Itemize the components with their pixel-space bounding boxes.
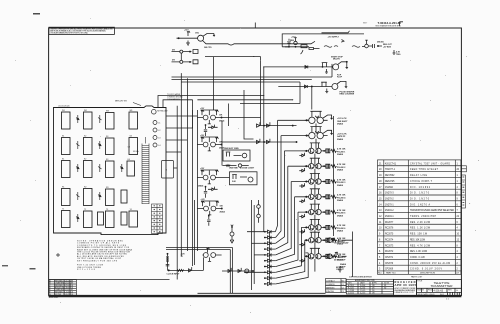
svg-text:2N404: 2N404 xyxy=(219,120,224,123)
counter stage FF3 xyxy=(197,170,229,184)
svg-text:R2: R2 xyxy=(84,187,86,189)
revision table (bottom left) xyxy=(49,280,77,296)
svg-text:ISS 7: ISS 7 xyxy=(363,23,367,25)
ring counter stage R4 pulse 2 xyxy=(299,158,336,181)
supply output line xyxy=(322,31,350,47)
svg-text:W3: W3 xyxy=(106,111,109,113)
title block text xyxy=(417,281,458,296)
multivibrator U1 labels xyxy=(331,56,344,79)
regulator labels xyxy=(377,42,401,56)
svg-text:FEED THRU EYELET: FEED THRU EYELET xyxy=(410,169,439,171)
horizontal rule above revision table xyxy=(49,279,170,281)
svg-text:COMMON: COMMON xyxy=(326,284,335,286)
diode gate row A xyxy=(257,122,297,127)
border frame xyxy=(49,28,462,296)
svg-text:VOLTAGES MEASURED WITH VTVM TO: VOLTAGES MEASURED WITH VTVM TO GROUND. xyxy=(50,32,88,35)
svg-text:NOTES: NOTES xyxy=(55,294,62,296)
svg-text:C2: C2 xyxy=(342,287,344,289)
svg-text:TRIG: TRIG xyxy=(396,54,401,56)
gate diode D2 xyxy=(264,236,275,244)
svg-text:R1: R1 xyxy=(62,187,64,189)
svg-text:ONE SHOT 22MS: ONE SHOT 22MS xyxy=(224,148,239,150)
svg-text:4.7K 10K: 4.7K 10K xyxy=(337,209,346,212)
svg-text:K2: K2 xyxy=(84,159,86,161)
svg-text:SPACING: SPACING xyxy=(326,290,335,293)
gate driver U2 xyxy=(278,81,347,109)
gate diode D9 xyxy=(264,276,275,284)
svg-text:ONE SHOT: ONE SHOT xyxy=(337,121,348,123)
svg-text:2N404: 2N404 xyxy=(337,123,344,126)
distributor bus vertical 3 xyxy=(275,151,284,244)
svg-text:NO.4A: NO.4A xyxy=(133,150,139,153)
svg-text:COND. 2000UF 15V EL ALUM: COND. 2000UF 15V EL ALUM xyxy=(410,262,450,265)
svg-text:RE72532: RE72532 xyxy=(385,175,395,177)
divider stage Q3 xyxy=(172,60,199,64)
svg-text:2N404: 2N404 xyxy=(337,199,344,202)
svg-text:2N404: 2N404 xyxy=(337,184,344,187)
svg-text:+12V: +12V xyxy=(184,30,189,32)
svg-text:PULSE 1: PULSE 1 xyxy=(337,152,346,154)
vertical component pair C11 xyxy=(257,200,261,223)
svg-text:PULSE 4: PULSE 4 xyxy=(337,196,346,199)
contacts legend text xyxy=(326,279,345,293)
timing components T1 xyxy=(223,164,249,167)
keyboard keys grid xyxy=(62,112,138,228)
bottom diode row xyxy=(222,268,254,273)
gate diode D8 xyxy=(264,271,275,279)
parts list table grid xyxy=(378,160,461,274)
revision table entries xyxy=(49,279,73,295)
svg-text:60 MA LOOP: 60 MA LOOP xyxy=(334,259,346,262)
svg-text:2N404: 2N404 xyxy=(340,263,347,266)
svg-text:TRANSMITTER: TRANSMITTER xyxy=(431,284,454,288)
svg-text:ISSUE DATE 4-30-65: ISSUE DATE 4-30-65 xyxy=(417,293,434,296)
approval stamp block xyxy=(394,280,417,296)
counter stage FF1 xyxy=(197,110,260,124)
svg-text:RC2073: RC2073 xyxy=(385,245,394,247)
svg-text:1N1692: 1N1692 xyxy=(385,187,394,189)
notes text block under keyboard xyxy=(77,240,133,272)
one-shot labels xyxy=(229,167,255,184)
clock input stage Q25 xyxy=(202,248,221,262)
svg-text:+12V 4.7K: +12V 4.7K xyxy=(337,132,347,135)
svg-text:4201CT-61: 4201CT-61 xyxy=(385,163,397,165)
FF1 labels xyxy=(200,108,224,123)
svg-text:RC2077: RC2077 xyxy=(385,222,394,224)
ring counter stage R3 pulse 1 xyxy=(299,143,336,166)
clock input filter xyxy=(166,253,170,270)
svg-text:4.7K 10K: 4.7K 10K xyxy=(337,194,346,197)
svg-text:K4: K4 xyxy=(128,159,130,161)
svg-text:PULSE 6: PULSE 6 xyxy=(337,228,346,230)
supply labels xyxy=(290,36,340,42)
svg-text:CHOKE 80MH-T: CHOKE 80MH-T xyxy=(410,181,433,183)
keyboard contact circles column xyxy=(152,109,158,147)
svg-text:DRAWING FILE COPY: DRAWING FILE COPY xyxy=(395,291,416,294)
svg-text:2N404: 2N404 xyxy=(337,214,344,217)
svg-text:CP2071: CP2071 xyxy=(385,257,394,259)
gate diode D7 xyxy=(264,265,275,273)
svg-text:+5V BUS: +5V BUS xyxy=(383,46,392,48)
output network components xyxy=(332,232,353,278)
svg-text:RC2074: RC2074 xyxy=(385,239,394,241)
gate diode D5 xyxy=(264,253,275,260)
interstage coupling C8 xyxy=(204,186,218,197)
svg-text:4.7K 10K: 4.7K 10K xyxy=(337,148,346,151)
svg-text:DELAY LINE: DELAY LINE xyxy=(410,174,427,177)
svg-text:D-2210: D-2210 xyxy=(348,292,354,294)
gate feed wire B xyxy=(252,242,265,244)
divider stage Q2 xyxy=(172,50,199,61)
svg-text:FLOP: FLOP xyxy=(337,77,343,79)
FF4 labels xyxy=(201,199,225,214)
keyboard top corner wires xyxy=(158,96,196,108)
svg-text:N2: N2 xyxy=(384,288,386,290)
distributor bus vertical 5 xyxy=(275,182,291,256)
svg-text:C1: C1 xyxy=(342,284,344,286)
svg-text:OSC: OSC xyxy=(195,33,200,35)
wire labels top of keyboard xyxy=(167,93,184,101)
svg-text:2N404: 2N404 xyxy=(198,185,203,188)
gate diode D3 xyxy=(264,242,275,250)
output driver Q21 xyxy=(326,254,334,259)
svg-text:RES. 10K 1/2W: RES. 10K 1/2W xyxy=(410,239,426,241)
svg-text:+12V 4.7K: +12V 4.7K xyxy=(337,117,347,120)
parts list caption xyxy=(349,276,423,279)
svg-text:RES. 1.2K 1/2W: RES. 1.2K 1/2W xyxy=(410,228,431,230)
coupling network C10 xyxy=(230,225,234,243)
interstage coupling C9 xyxy=(207,215,210,225)
note box text xyxy=(50,28,113,35)
ring counter stage R8 pulse 6 xyxy=(299,219,336,242)
ring counter stage R1 start xyxy=(305,111,333,133)
svg-text:4.7K 10K: 4.7K 10K xyxy=(337,224,346,227)
svg-text:REG: REG xyxy=(290,40,295,42)
svg-text:4-2-65: 4-2-65 xyxy=(360,292,365,294)
svg-text:CP2070: CP2070 xyxy=(385,263,394,265)
distributor bus vertical 6 xyxy=(275,197,294,261)
svg-text:K3: K3 xyxy=(106,159,108,161)
svg-text:2N404-1: 2N404-1 xyxy=(385,216,394,218)
svg-text:368 CPS: 368 CPS xyxy=(204,47,212,49)
gate diode D4 xyxy=(264,247,275,255)
ring counter stage R6 pulse 4 xyxy=(299,189,336,212)
svg-text:PULSE 2: PULSE 2 xyxy=(337,167,346,169)
svg-text:1N270-1: 1N270-1 xyxy=(385,204,394,206)
terminal cell dots xyxy=(154,205,161,232)
+5V supply box xyxy=(282,34,364,54)
distributor bus vertical 8 xyxy=(275,227,301,272)
svg-text:K1: K1 xyxy=(62,159,64,161)
svg-text:MULTIV: MULTIV xyxy=(333,59,341,61)
svg-text:RC2072: RC2072 xyxy=(385,251,394,253)
svg-text:ONE TIME: ONE TIME xyxy=(229,168,238,170)
timer box label xyxy=(224,148,239,150)
distributor bus vertical 1 xyxy=(275,120,277,232)
ring counter stage labels xyxy=(337,117,348,269)
svg-text:JW: JW xyxy=(372,292,375,294)
gate driver U2 labels xyxy=(340,91,355,96)
output labels xyxy=(334,242,349,272)
svg-text:CLOCK INPUT: CLOCK INPUT xyxy=(167,274,181,276)
svg-text:DIO. 1N1692: DIO. 1N1692 xyxy=(410,187,431,189)
clock input wire xyxy=(168,257,204,272)
svg-text:4-201-65: 4-201-65 xyxy=(434,289,444,292)
FF2 labels xyxy=(200,135,224,150)
start-stop multivibrator U1 xyxy=(263,61,348,73)
divider labels xyxy=(172,49,176,61)
svg-text:TR2077-1: TR2077-1 xyxy=(385,169,396,171)
clock input label xyxy=(167,274,181,276)
svg-text:T2: T2 xyxy=(84,209,86,211)
svg-text:SH 1: SH 1 xyxy=(440,294,444,296)
distributor bus vertical 9 xyxy=(275,240,304,278)
svg-text:2N404: 2N404 xyxy=(337,153,344,156)
svg-text:KEYBD-SW: KEYBD-SW xyxy=(157,110,167,112)
svg-text:L4: L4 xyxy=(158,145,160,147)
key top labels xyxy=(62,110,132,211)
connector box B xyxy=(162,161,174,179)
svg-text:RES. 15K 1W: RES. 15K 1W xyxy=(410,234,428,236)
svg-text:RES. 1.0K 1/2W: RES. 1.0K 1/2W xyxy=(410,251,428,253)
parts list header row DESCRIPTION xyxy=(378,272,460,275)
svg-text:S1: S1 xyxy=(62,136,64,138)
svg-text:S2: S2 xyxy=(84,136,86,138)
svg-text:CP2069: CP2069 xyxy=(385,269,394,271)
amendment record table xyxy=(346,279,393,294)
svg-text:G: G xyxy=(456,290,458,292)
svg-text:1N270-3: 1N270-3 xyxy=(385,193,394,195)
diode gate row B xyxy=(222,139,298,144)
FF3 labels xyxy=(198,168,205,188)
title block xyxy=(417,280,462,296)
long vertical feed wires xyxy=(177,57,333,294)
svg-text:TRANS. 2N404 PNP: TRANS. 2N404 PNP xyxy=(410,215,436,218)
approval stamp text xyxy=(395,280,417,294)
svg-text:S4: S4 xyxy=(130,136,132,138)
svg-text:PULSE 3: PULSE 3 xyxy=(337,182,346,184)
distributor bus vertical 7 xyxy=(275,212,298,267)
clock input stage labels xyxy=(181,254,186,259)
interstage coupling C7 xyxy=(204,125,218,136)
gate diode D6 xyxy=(264,259,275,267)
svg-text:L3: L3 xyxy=(158,137,160,139)
one-shot box U3 xyxy=(230,172,258,185)
drawing number strip above border xyxy=(363,21,402,28)
oscillator labels xyxy=(184,30,212,50)
svg-text:CODE BAR BUS: CODE BAR BUS xyxy=(167,98,181,101)
distributor bus vertical 10 xyxy=(275,253,308,284)
svg-text:L2: L2 xyxy=(158,130,160,132)
svg-text:PART NO.: PART NO. xyxy=(386,272,396,275)
gate diode D10 xyxy=(264,282,275,285)
svg-text:(1) (2) (3) (4): (1) (2) (3) (4) xyxy=(59,105,70,107)
svg-text:T4: T4 xyxy=(130,209,132,211)
gate feed wire C xyxy=(254,254,264,256)
svg-text:COND. 0.01UF 200V: COND. 0.01UF 200V xyxy=(410,269,442,271)
output driver Q20 xyxy=(326,238,334,243)
junction dots on ties xyxy=(253,56,293,100)
svg-text:CRYSTAL 7357 UNIT - GUARD: CRYSTAL 7357 UNIT - GUARD xyxy=(410,162,450,165)
svg-text:4.7K 10K: 4.7K 10K xyxy=(337,163,346,166)
svg-text:R3: R3 xyxy=(106,187,108,189)
svg-text:W4: W4 xyxy=(130,110,133,112)
svg-text:T-30413-A-201-65: T-30413-A-201-65 xyxy=(378,21,402,25)
note box (general notes, top left) xyxy=(49,27,115,34)
svg-text:2N404: 2N404 xyxy=(337,230,344,233)
drawing tab boxes outside right border xyxy=(461,166,466,208)
code bar labels column xyxy=(128,147,140,154)
sub-border id text xyxy=(49,297,59,299)
svg-text:RE64725: RE64725 xyxy=(385,181,395,183)
svg-text:COND. 0.1UF: COND. 0.1UF xyxy=(410,257,426,259)
svg-text:W1: W1 xyxy=(62,110,65,112)
svg-text:DIO. 1N270: DIO. 1N270 xyxy=(410,199,430,201)
svg-text:CIRCUIT: CIRCUIT xyxy=(336,269,345,271)
svg-text:1N270-2: 1N270-2 xyxy=(385,199,394,201)
svg-text:NO.: NO. xyxy=(378,273,382,275)
svg-text:+5V SUPPLY: +5V SUPPLY xyxy=(328,36,340,38)
svg-text:L1: L1 xyxy=(158,122,160,124)
svg-text:W2: W2 xyxy=(84,110,87,112)
svg-text:OUTPUT RELAY: OUTPUT RELAY xyxy=(334,242,349,245)
svg-text:3-9-65: 3-9-65 xyxy=(64,294,69,296)
ring counter stage R5 pulse 3 xyxy=(299,174,336,197)
svg-text:CONTACT: CONTACT xyxy=(326,279,335,282)
ring counter stage R7 pulse 5 xyxy=(299,204,336,227)
contacts legend table (left of title block) xyxy=(326,279,347,293)
amendment record text xyxy=(348,279,390,294)
gate diode D1 xyxy=(264,230,275,238)
svg-text:RES. 2.2K 1/2W: RES. 2.2K 1/2W xyxy=(410,222,431,224)
keyboard contact ladder bank xyxy=(142,137,149,204)
svg-text:2N404: 2N404 xyxy=(220,211,225,214)
svg-text:S3: S3 xyxy=(106,136,108,138)
svg-text:PARTS LIST: PARTS LIST xyxy=(411,276,423,279)
svg-text:MARKING: MARKING xyxy=(326,286,335,289)
svg-text:+12V: +12V xyxy=(291,37,296,39)
gate feed wire A xyxy=(247,231,264,233)
ring counter stage R2 xyxy=(305,127,333,149)
svg-text:T1: T1 xyxy=(62,209,64,211)
svg-text:RING TRANSMITTER DISTR SHT 1: RING TRANSMITTER DISTR SHT 1 xyxy=(376,25,402,28)
horizontal tie wires xyxy=(49,57,332,294)
connector box label xyxy=(166,170,168,172)
parts list rows text xyxy=(379,162,460,270)
svg-text:B-96 4201: B-96 4201 xyxy=(49,297,59,299)
svg-text:DIO. 1N270: DIO. 1N270 xyxy=(410,193,430,195)
svg-text:4.7K 10K: 4.7K 10K xyxy=(337,178,346,181)
keyboard terminal cell block xyxy=(152,204,163,234)
svg-text:PULSE 5: PULSE 5 xyxy=(337,213,346,215)
svg-text:4 DIODE COUNT: 4 DIODE COUNT xyxy=(240,167,255,170)
distributor bus vertical 4 xyxy=(275,166,287,249)
svg-text:TITLE: TITLE xyxy=(417,281,423,283)
keyboard block top labels xyxy=(59,105,70,107)
ring counter stage R9 pulse 7 xyxy=(299,232,336,255)
margin tick marks xyxy=(2,14,403,269)
svg-text:MERCURY SW: MERCURY SW xyxy=(115,101,127,103)
keyboard exit wires top xyxy=(166,110,197,168)
svg-text:RC2075: RC2075 xyxy=(385,234,394,236)
ring counter stage R10 pulse 8 xyxy=(299,248,336,271)
keyboard circle labels xyxy=(157,110,167,147)
svg-text:TRANSISTOR 2N404 GERM PNP SELE: TRANSISTOR 2N404 GERM PNP SELECTED xyxy=(410,209,454,212)
keyboard inter-column contact symbols xyxy=(56,115,124,257)
counter stage FF4 xyxy=(197,201,222,215)
svg-text:2N404: 2N404 xyxy=(337,138,344,141)
keyboard contact block outline xyxy=(54,106,167,235)
svg-text:SET FREQUENCY FOR 368 CPS: SET FREQUENCY FOR 368 CPS xyxy=(77,260,118,262)
regulator network right of supply xyxy=(352,40,396,54)
counter stage FF2 xyxy=(197,137,222,151)
svg-text:T3: T3 xyxy=(106,209,108,211)
svg-text:DIO. 1N270 A: DIO. 1N270 A xyxy=(410,203,430,206)
timer box U4 xyxy=(223,150,250,161)
oscillator Q1 xyxy=(177,31,345,45)
stage tie horizontals xyxy=(278,120,309,253)
svg-text:R22=120K: R22=120K xyxy=(77,269,96,271)
svg-text:2N404: 2N404 xyxy=(337,169,344,172)
svg-text:GATE FF: GATE FF xyxy=(337,135,346,138)
svg-text:DESCRIPTION: DESCRIPTION xyxy=(420,273,435,275)
svg-text:RING COUNTER: RING COUNTER xyxy=(340,94,355,96)
svg-text:C3: C3 xyxy=(342,291,344,293)
svg-text:APR 30 1965: APR 30 1965 xyxy=(395,283,417,287)
sheet number mark below border xyxy=(446,299,450,301)
svg-text:2N404-2: 2N404-2 xyxy=(385,210,394,212)
svg-text:RES. 4.7K 1/2W: RES. 4.7K 1/2W xyxy=(410,245,431,247)
mercury switch label xyxy=(115,101,127,103)
gate feed wire D xyxy=(244,271,264,273)
distributor bus vertical 2 xyxy=(275,136,281,238)
svg-text:RC2076: RC2076 xyxy=(385,228,394,230)
